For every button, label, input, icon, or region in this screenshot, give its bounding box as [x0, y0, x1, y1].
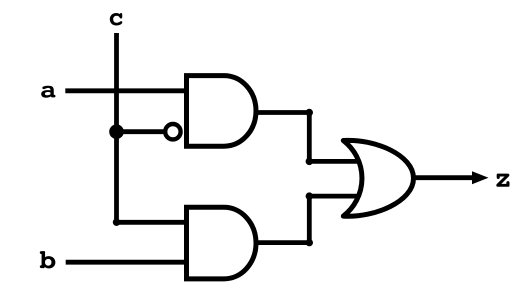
- wire c to inverter bubble: [117, 129, 166, 134]
- vertex dot OR top input corner: [306, 158, 313, 165]
- node label b: [40, 251, 56, 268]
- arrowhead z: [472, 171, 489, 184]
- node label c: [110, 13, 122, 25]
- vertex dot corner c wire: [113, 219, 120, 226]
- wire c vertical: [114, 33, 119, 222]
- node label z: [496, 174, 509, 187]
- wire a input: [65, 88, 189, 93]
- vertex dot bottom AND out corner: [306, 239, 313, 246]
- AND gate top: [187, 76, 257, 147]
- wire z output: [414, 175, 481, 180]
- junction dot on c: [109, 124, 124, 139]
- inverter bubble on top AND input: [165, 124, 180, 139]
- node label a: [41, 86, 55, 98]
- wire bottom AND output to OR input: [254, 196, 358, 243]
- AND gate bottom: [187, 207, 257, 279]
- wire b input: [66, 260, 189, 265]
- wire top AND output to OR input: [253, 113, 358, 162]
- wire c to bottom AND gate: [117, 220, 190, 225]
- vertex dot top AND out corner: [306, 109, 313, 116]
- OR gate: [343, 140, 413, 216]
- vertex dot OR bottom input corner: [306, 192, 313, 199]
